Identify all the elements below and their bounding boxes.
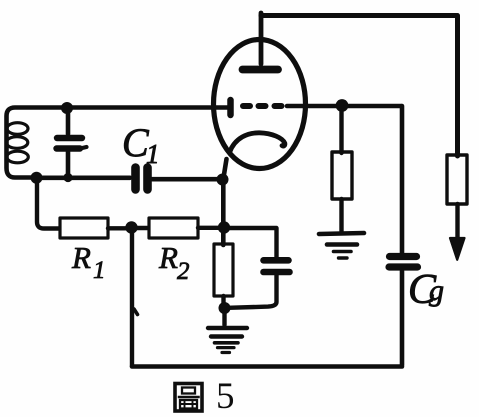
- svg-text:5: 5: [216, 376, 235, 417]
- node R1/R2 junction: [125, 221, 137, 233]
- node tank bottom: [31, 172, 43, 184]
- grid terminal bar: [227, 100, 234, 115]
- wire to bypass cap (top): [224, 228, 277, 257]
- wire grid to tank (top-left rail): [7, 108, 229, 178]
- wire tank cap top lead: [66, 108, 71, 134]
- wire right drop to RL: [455, 16, 460, 157]
- capacitor Cg top plate: [390, 253, 417, 260]
- svg-text:1: 1: [146, 139, 160, 169]
- capacitor Ck top plate: [264, 257, 289, 264]
- svg-text:2: 2: [177, 258, 190, 285]
- resistor Rg (middle, vertical): [332, 152, 352, 199]
- wire C1 to cathode node: [152, 177, 221, 182]
- wire R1 to node: [108, 226, 130, 230]
- cathode of V1: [230, 133, 285, 153]
- wire R2 to cathode branch node: [198, 226, 222, 230]
- wire grid right rail: [287, 104, 401, 109]
- wire B+ top rail: [261, 13, 456, 18]
- resistor R1: [60, 218, 108, 238]
- wire cathode vertical: [221, 180, 226, 246]
- resistor R2: [149, 218, 198, 238]
- capacitor tank bottom plate: [57, 145, 81, 151]
- label C1: [122, 120, 160, 169]
- plate of V1: [243, 66, 279, 74]
- node cathode / C1 junction: [217, 174, 229, 186]
- svg-text:1: 1: [93, 257, 106, 284]
- wire cathode lead: [223, 159, 226, 179]
- wire plate lead: [259, 13, 264, 64]
- capacitor tank (variable) top plate: [57, 135, 82, 141]
- blob on vertical wire: [134, 309, 138, 315]
- wire Rk bottom lead: [221, 296, 225, 308]
- inductor L1 coil loops: [7, 123, 28, 135]
- capacitor C1 plates: [136, 168, 148, 190]
- wire R1/R2 node down to rail: [130, 228, 134, 366]
- label R1: [71, 240, 106, 284]
- node Rk bottom: [219, 302, 231, 314]
- wire bypass cap return: [228, 275, 277, 308]
- label R2: [158, 240, 190, 285]
- ground Rg: [319, 233, 364, 258]
- wire tank cap bottom lead: [66, 152, 71, 179]
- svg-text:R: R: [71, 240, 91, 275]
- wire grid rail corner down to Cg: [400, 106, 405, 254]
- tube V1 envelope: [214, 40, 306, 169]
- svg-text:R: R: [158, 240, 178, 275]
- capacitor Ck bottom plate: [264, 269, 290, 276]
- ground cathode: [208, 308, 247, 353]
- capacitor Cg bottom plate: [389, 263, 418, 270]
- wire node to R2: [133, 226, 148, 230]
- node grid leak junction: [336, 99, 349, 112]
- resistor RL (right, vertical): [447, 155, 467, 204]
- node cathode branch: [218, 221, 230, 233]
- arrow output (down): [450, 238, 465, 260]
- wire tank bottom to C1: [34, 176, 130, 181]
- grid dashes: [243, 103, 282, 109]
- svg-text:g: g: [429, 274, 444, 307]
- wire Rg to ground: [339, 199, 343, 231]
- node tank top: [61, 102, 73, 114]
- caption character 圖: [175, 384, 202, 412]
- node tank cap bottom: [63, 173, 72, 182]
- wire tank bottom down to R1: [37, 178, 59, 229]
- wire RL to arrow: [455, 204, 459, 243]
- wire down to Rg: [339, 106, 343, 153]
- wire Cg to bottom rail: [400, 271, 405, 365]
- label Cg: [408, 267, 444, 313]
- wire bottom rail: [132, 364, 402, 369]
- resistor Rk (cathode, vertical): [214, 244, 233, 296]
